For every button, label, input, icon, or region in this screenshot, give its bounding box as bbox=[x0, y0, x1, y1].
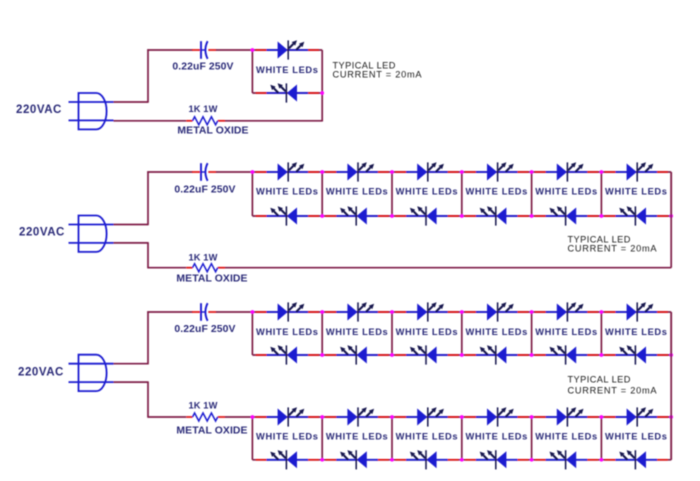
junction circuit 3 lower chain top rail dot 1 bbox=[251, 415, 255, 419]
wire circuit 3 top rail left of cap bbox=[147, 311, 192, 313]
wire circuit 3 lower chain cell boundary vertical x=392 bbox=[391, 417, 393, 460]
wire circuit 3 upper chain cell 5 top rail red stub left bbox=[535, 311, 547, 313]
wire circuit 2 return wire to right edge bbox=[225, 267, 671, 269]
svg-text:METAL OXIDE: METAL OXIDE bbox=[176, 425, 247, 436]
wire circuit 3 upper chain cell 2 bottom rail red stub left bbox=[326, 354, 338, 356]
junction circuit 2 top rail dot 6 bbox=[600, 170, 604, 174]
LED D3 (white LED, pointing right) bbox=[267, 162, 309, 181]
wire circuit 3 lower chain cell 4 top rail red stub left bbox=[465, 416, 477, 418]
wire circuit 2 cell 1 bottom rail red stub left bbox=[256, 215, 268, 217]
junction circuit 3 upper chain bottom rail dot 4 bbox=[460, 353, 464, 357]
LED D4 (white LED, pointing left) bbox=[267, 206, 309, 225]
junction circuit 2 bottom rail dot 6 bbox=[600, 214, 604, 218]
wire circuit 3 upper chain cell 6 bottom rail red stub right bbox=[656, 354, 668, 356]
LED D32 (white LED, pointing left) bbox=[406, 450, 448, 469]
svg-text:WHITE LEDs: WHITE LEDs bbox=[256, 187, 319, 197]
junction circuit 2 bottom rail dot 5 bbox=[530, 214, 534, 218]
wire circuit 3 lower chain cell 5 top rail red stub left bbox=[535, 416, 547, 418]
wire circuit 3 upper chain cell 4 top rail red stub left bbox=[465, 311, 477, 313]
wire circuit 3 lower chain cell boundary vertical x=322.2 bbox=[321, 417, 323, 460]
LED D6 (white LED, pointing left) bbox=[336, 206, 378, 225]
svg-text:WHITE LEDs: WHITE LEDs bbox=[465, 187, 528, 197]
junction circuit 3 upper chain top rail dot 4 bbox=[460, 310, 464, 314]
wire circuit 2 bottom rail bbox=[252, 215, 671, 217]
svg-text:TYPICAL LED: TYPICAL LED bbox=[568, 375, 631, 385]
LED D1 (white LED, pointing right) bbox=[267, 40, 309, 59]
svg-text:1K 1W: 1K 1W bbox=[189, 252, 218, 262]
svg-text:WHITE LEDs: WHITE LEDs bbox=[605, 187, 668, 197]
wire circuit 3 lower chain cell 2 bottom rail red stub left bbox=[326, 459, 338, 461]
wire circuit 1 top rail left of cap bbox=[147, 49, 192, 51]
resistor R1 1K 1W metal oxide bbox=[186, 117, 225, 125]
svg-text:CURRENT = 20mA: CURRENT = 20mA bbox=[568, 385, 658, 395]
wire circuit 2 right vertical bbox=[670, 172, 672, 268]
svg-text:0.22uF 250V: 0.22uF 250V bbox=[174, 185, 235, 196]
wire circuit 3 upper chain top rail bbox=[252, 311, 671, 313]
wire circuit 2 return wire left of resistor bbox=[147, 267, 186, 269]
svg-text:220VAC: 220VAC bbox=[16, 104, 62, 116]
wire circuit 3 lower chain cell 1 bottom rail red stub right bbox=[307, 459, 319, 461]
svg-text:WHITE LEDs: WHITE LEDs bbox=[256, 432, 319, 442]
wire circuit 3 upper chain cell 1 top rail red stub left bbox=[256, 311, 268, 313]
wire circuit 1 top rail red stub left bbox=[256, 49, 268, 51]
wire circuit 3 lower chain cell 2 top rail red stub right bbox=[377, 416, 389, 418]
LED D37 (white LED, pointing right) bbox=[616, 407, 658, 426]
wire circuit 3 right vertical bbox=[670, 312, 672, 460]
wire circuit 3 upper chain cell 2 top rail red stub left bbox=[326, 311, 338, 313]
wire circuit 2 cell 6 bottom rail red stub left bbox=[605, 215, 617, 217]
junction circuit 3 lower chain bottom rail dot 5 bbox=[530, 458, 534, 462]
wire circuit 2 cell 6 bottom rail red stub right bbox=[656, 215, 668, 217]
wire circuit 2 cell 6 top rail red stub right bbox=[656, 171, 668, 173]
wire circuit 1 cell top rail bbox=[252, 49, 322, 51]
svg-text:WHITE LEDs: WHITE LEDs bbox=[256, 327, 319, 337]
wire circuit 1 cell bottom rail bbox=[252, 92, 322, 94]
LED D13 (white LED, pointing right) bbox=[616, 162, 658, 181]
junction circuit 2 top rail dot 4 bbox=[460, 170, 464, 174]
wire circuit 3 bottom drop bbox=[147, 382, 149, 417]
LED D14 (white LED, pointing left) bbox=[616, 206, 658, 225]
wire circuit 3 lower chain cell 6 top rail red stub right bbox=[656, 416, 668, 418]
wire circuit 3 upper chain cell 3 top rail red stub left bbox=[395, 311, 407, 313]
wire circuit 3 upper chain cell 2 top rail red stub right bbox=[377, 311, 389, 313]
wire circuit 3 lower chain bottom rail bbox=[252, 459, 671, 461]
LED D26 (white LED, pointing left) bbox=[616, 345, 658, 364]
wire circuit 2 cell boundary vertical x=671.2 bbox=[670, 172, 672, 216]
resistor R3 1K 1W metal oxide bbox=[186, 413, 225, 421]
svg-text:WHITE LEDs: WHITE LEDs bbox=[535, 327, 598, 337]
wire circuit 2 cell 2 bottom rail red stub left bbox=[326, 215, 338, 217]
wire circuit 2 cell 4 top rail red stub left bbox=[465, 171, 477, 173]
wire circuit 3 lower chain cell 5 top rail red stub right bbox=[586, 416, 598, 418]
junction circuit 1 top-left bbox=[251, 48, 255, 52]
wire circuit 3 lower chain cell 5 bottom rail red stub right bbox=[586, 459, 598, 461]
wire circuit 3 lower chain cell boundary vertical x=461.8 bbox=[461, 417, 463, 460]
wire circuit 3 upper chain cell 6 top rail red stub left bbox=[605, 311, 617, 313]
wire circuit 3 upper chain cell boundary vertical x=461.8 bbox=[461, 312, 463, 355]
capacitor C3 0.22uF 250V bbox=[192, 303, 217, 321]
wire circuit 2 cell 3 bottom rail red stub left bbox=[395, 215, 407, 217]
junction circuit 3 upper chain top rail dot 1 bbox=[251, 310, 255, 314]
svg-text:1K 1W: 1K 1W bbox=[189, 104, 218, 114]
junction circuit 3 lower chain top rail dot 2 bbox=[320, 415, 324, 419]
svg-text:WHITE LEDs: WHITE LEDs bbox=[535, 187, 598, 197]
svg-text:WHITE LEDs: WHITE LEDs bbox=[396, 187, 459, 197]
wire circuit 3 lower chain cell 3 top rail red stub left bbox=[395, 416, 407, 418]
svg-text:220VAC: 220VAC bbox=[18, 367, 64, 379]
wire circuit 1 cell right vertical bbox=[321, 50, 323, 122]
wire circuit 3 top rail cap to first junction bbox=[216, 311, 252, 313]
svg-text:220VAC: 220VAC bbox=[19, 226, 65, 238]
junction circuit 3 lower chain top rail dot 5 bbox=[530, 415, 534, 419]
svg-text:WHITE LEDs: WHITE LEDs bbox=[256, 65, 319, 75]
wire plug P3 top pin to riser bbox=[114, 363, 149, 365]
wire circuit 3 lower chain cell 1 top rail red stub left bbox=[256, 416, 268, 418]
wire circuit 2 cell 4 top rail red stub right bbox=[516, 171, 528, 173]
LED D20 (white LED, pointing left) bbox=[406, 345, 448, 364]
wire circuit 2 top rail cap to first junction bbox=[216, 171, 252, 173]
wire circuit 2 cell 3 bottom rail red stub right bbox=[446, 215, 458, 217]
wire circuit 2 cell 2 bottom rail red stub right bbox=[377, 215, 389, 217]
LED D35 (white LED, pointing right) bbox=[546, 407, 588, 426]
wire circuit 2 cell boundary vertical x=601.4 bbox=[600, 172, 602, 216]
LED D11 (white LED, pointing right) bbox=[546, 162, 588, 181]
wire circuit 3 lower chain cell 6 top rail red stub left bbox=[605, 416, 617, 418]
junction circuit 3 lower chain bottom rail dot 2 bbox=[320, 458, 324, 462]
wire circuit 1 bottom rail red stub right bbox=[307, 92, 319, 94]
svg-text:WHITE LEDs: WHITE LEDs bbox=[465, 432, 528, 442]
LED D2 (white LED, pointing left) bbox=[267, 83, 309, 102]
wire circuit 3 upper chain cell 3 top rail red stub right bbox=[446, 311, 458, 313]
resistor R2 1K 1W metal oxide bbox=[186, 264, 225, 272]
junction circuit 2 bottom rail dot 2 bbox=[320, 214, 324, 218]
wire circuit 3 lower chain cell 3 bottom rail red stub left bbox=[395, 459, 407, 461]
LED D10 (white LED, pointing left) bbox=[476, 206, 518, 225]
wire circuit 3 upper chain cell 1 bottom rail red stub left bbox=[256, 354, 268, 356]
junction circuit 3 upper chain bottom rail dot 6 bbox=[600, 353, 604, 357]
wire circuit 3 upper chain cell boundary vertical x=531.6 bbox=[531, 312, 533, 355]
svg-text:0.22uF 250V: 0.22uF 250V bbox=[174, 324, 235, 335]
junction circuit 3 lower chain top rail dot 3 bbox=[390, 415, 394, 419]
wire plug P1 bottom pin to resistor bbox=[114, 120, 187, 122]
AC plug source P2 (circuit 2) bbox=[69, 216, 114, 252]
wire circuit 1 return wire bbox=[225, 120, 322, 122]
wire circuit 3 lower chain cell 5 bottom rail red stub left bbox=[535, 459, 547, 461]
wire circuit 3 lower chain top rail bbox=[252, 416, 671, 418]
wire circuit 3 upper chain cell 4 bottom rail red stub left bbox=[465, 354, 477, 356]
LED D23 (white LED, pointing right) bbox=[546, 302, 588, 321]
wire circuit 2 cell boundary vertical x=392 bbox=[391, 172, 393, 216]
junction circuit 3 upper chain bottom rail dot 5 bbox=[530, 353, 534, 357]
wire circuit 3 lower chain cell boundary vertical x=252.4 bbox=[251, 417, 253, 460]
wire plug P3 bottom pin wire bbox=[114, 381, 149, 383]
LED D36 (white LED, pointing left) bbox=[546, 450, 588, 469]
wire circuit 2 cell 4 bottom rail red stub right bbox=[516, 215, 528, 217]
junction circuit 3 lower chain bottom rail dot 3 bbox=[390, 458, 394, 462]
svg-text:WHITE LEDs: WHITE LEDs bbox=[535, 432, 598, 442]
LED D19 (white LED, pointing right) bbox=[406, 302, 448, 321]
wire circuit 3 upper chain cell 6 top rail red stub right bbox=[656, 311, 668, 313]
wire circuit 3 upper chain cell boundary vertical x=601.4 bbox=[600, 312, 602, 355]
svg-text:0.22uF 250V: 0.22uF 250V bbox=[172, 62, 233, 73]
wire plug P1 top pin to riser bbox=[114, 101, 149, 103]
wire circuit 3 lower chain cell 4 top rail red stub right bbox=[516, 416, 528, 418]
wire circuit 2 cell 1 top rail red stub right bbox=[307, 171, 319, 173]
wire circuit 2 cell 1 top rail red stub left bbox=[256, 171, 268, 173]
wire circuit 3 lower chain cell 1 top rail red stub right bbox=[307, 416, 319, 418]
wire circuit 3 upper chain cell boundary vertical x=671.2 bbox=[670, 312, 672, 355]
wire circuit 3 upper chain cell 6 bottom rail red stub left bbox=[605, 354, 617, 356]
LED D15 (white LED, pointing right) bbox=[267, 302, 309, 321]
wire riser circuit 1 bbox=[147, 49, 149, 102]
wire circuit 3 lower chain cell 4 bottom rail red stub right bbox=[516, 459, 528, 461]
junction circuit 2 bottom rail dot 7 bbox=[669, 214, 673, 218]
wire circuit 2 top rail bbox=[252, 171, 671, 173]
wire riser circuit 2 bbox=[147, 171, 149, 225]
wire circuit 2 cell 3 top rail red stub left bbox=[395, 171, 407, 173]
svg-text:METAL OXIDE: METAL OXIDE bbox=[176, 273, 247, 284]
junction circuit 3 upper chain top rail dot 3 bbox=[390, 310, 394, 314]
wire circuit 2 bottom drop bbox=[147, 243, 149, 268]
wire circuit 2 cell 3 top rail red stub right bbox=[446, 171, 458, 173]
wire circuit 3 upper chain cell 1 top rail red stub right bbox=[307, 311, 319, 313]
wire circuit 3 lower chain cell 6 bottom rail red stub right bbox=[656, 459, 668, 461]
wire circuit 3 lower chain cell 4 bottom rail red stub left bbox=[465, 459, 477, 461]
LED D31 (white LED, pointing right) bbox=[406, 407, 448, 426]
LED D30 (white LED, pointing left) bbox=[336, 450, 378, 469]
LED D38 (white LED, pointing left) bbox=[616, 450, 658, 469]
wire circuit 3 lower chain cell 2 bottom rail red stub right bbox=[377, 459, 389, 461]
LED D18 (white LED, pointing left) bbox=[336, 345, 378, 364]
junction circuit 1 bottom-right bbox=[320, 91, 324, 95]
wire circuit 3 upper chain cell 2 bottom rail red stub right bbox=[377, 354, 389, 356]
wire circuit 2 cell 1 bottom rail red stub right bbox=[307, 215, 319, 217]
svg-text:WHITE LEDs: WHITE LEDs bbox=[605, 327, 668, 337]
wire circuit 2 cell 4 bottom rail red stub left bbox=[465, 215, 477, 217]
LED D12 (white LED, pointing left) bbox=[546, 206, 588, 225]
LED D5 (white LED, pointing right) bbox=[336, 162, 378, 181]
junction circuit 3 upper chain bottom rail dot 2 bbox=[320, 353, 324, 357]
wire circuit 2 cell boundary vertical x=531.6 bbox=[531, 172, 533, 216]
LED D17 (white LED, pointing right) bbox=[336, 302, 378, 321]
junction circuit 3 upper chain top rail dot 2 bbox=[320, 310, 324, 314]
wire circuit 3 lower chain cell 2 top rail red stub left bbox=[326, 416, 338, 418]
wire circuit 3 upper chain cell boundary vertical x=322.2 bbox=[321, 312, 323, 355]
wire circuit 2 cell 5 bottom rail red stub left bbox=[535, 215, 547, 217]
wire circuit 2 top rail left of cap bbox=[147, 171, 192, 173]
svg-text:CURRENT = 20mA: CURRENT = 20mA bbox=[333, 70, 423, 80]
wire circuit 3 upper chain cell 5 bottom rail red stub left bbox=[535, 354, 547, 356]
wire circuit 1 top rail red stub right bbox=[307, 49, 319, 51]
junction circuit 2 top rail dot 5 bbox=[530, 170, 534, 174]
wire circuit 2 cell 2 top rail red stub left bbox=[326, 171, 338, 173]
svg-text:WHITE LEDs: WHITE LEDs bbox=[326, 432, 389, 442]
wire circuit 3 lower rail left of resistor bbox=[147, 416, 186, 418]
AC plug source P1 (circuit 1) bbox=[69, 93, 114, 129]
wire circuit 3 upper chain cell 5 bottom rail red stub right bbox=[586, 354, 598, 356]
wire plug P2 top pin to riser bbox=[114, 224, 149, 226]
svg-text:WHITE LEDs: WHITE LEDs bbox=[605, 432, 668, 442]
wire circuit 3 lower chain cell 3 top rail red stub right bbox=[446, 416, 458, 418]
wire circuit 3 upper chain cell 5 top rail red stub right bbox=[586, 311, 598, 313]
LED D21 (white LED, pointing right) bbox=[476, 302, 518, 321]
LED D25 (white LED, pointing right) bbox=[616, 302, 658, 321]
junction circuit 3 lower chain bottom rail dot 4 bbox=[460, 458, 464, 462]
LED D24 (white LED, pointing left) bbox=[546, 345, 588, 364]
wire circuit 3 upper chain cell 3 bottom rail red stub right bbox=[446, 354, 458, 356]
wire circuit 2 cell 6 top rail red stub left bbox=[605, 171, 617, 173]
junction circuit 3 upper chain bottom rail dot 7 bbox=[669, 353, 673, 357]
wire circuit 3 lower chain cell 6 bottom rail red stub left bbox=[605, 459, 617, 461]
wire circuit 3 lower chain cell 3 bottom rail red stub right bbox=[446, 459, 458, 461]
LED D22 (white LED, pointing left) bbox=[476, 345, 518, 364]
junction circuit 2 bottom rail dot 4 bbox=[460, 214, 464, 218]
junction circuit 2 top rail dot 2 bbox=[320, 170, 324, 174]
junction circuit 2 top rail dot 1 bbox=[251, 170, 255, 174]
wire circuit 3 lower chain cell boundary vertical x=531.6 bbox=[531, 417, 533, 460]
svg-text:WHITE LEDs: WHITE LEDs bbox=[326, 327, 389, 337]
wire circuit 3 upper chain cell boundary vertical x=392 bbox=[391, 312, 393, 355]
svg-text:WHITE LEDs: WHITE LEDs bbox=[396, 327, 459, 337]
wire circuit 3 upper chain cell 4 top rail red stub right bbox=[516, 311, 528, 313]
LED D9 (white LED, pointing right) bbox=[476, 162, 518, 181]
wire plug P2 bottom pin wire bbox=[114, 242, 149, 244]
junction circuit 3 lower chain bottom rail dot 6 bbox=[600, 458, 604, 462]
svg-text:WHITE LEDs: WHITE LEDs bbox=[396, 432, 459, 442]
LED D8 (white LED, pointing left) bbox=[406, 206, 448, 225]
wire circuit 2 cell 5 bottom rail red stub right bbox=[586, 215, 598, 217]
wire circuit 1 bottom rail red stub left bbox=[256, 92, 268, 94]
wire circuit 3 lower chain cell boundary vertical x=671.2 bbox=[670, 417, 672, 460]
wire circuit 3 upper chain cell 1 bottom rail red stub right bbox=[307, 354, 319, 356]
wire circuit 2 cell 2 top rail red stub right bbox=[377, 171, 389, 173]
svg-text:METAL OXIDE: METAL OXIDE bbox=[177, 126, 248, 137]
wire circuit 3 lower rail resistor to first junction bbox=[225, 416, 252, 418]
LED D16 (white LED, pointing left) bbox=[267, 345, 309, 364]
wire circuit 3 upper chain bottom rail bbox=[252, 354, 671, 356]
junction circuit 2 top rail dot 3 bbox=[390, 170, 394, 174]
LED D7 (white LED, pointing right) bbox=[406, 162, 448, 181]
wire circuit 3 lower chain cell 1 bottom rail red stub left bbox=[256, 459, 268, 461]
LED D34 (white LED, pointing left) bbox=[476, 450, 518, 469]
wire circuit 3 upper chain cell 3 bottom rail red stub left bbox=[395, 354, 407, 356]
capacitor C2 0.22uF 250V bbox=[192, 163, 217, 181]
wire circuit 2 cell 5 top rail red stub right bbox=[586, 171, 598, 173]
wire circuit 2 cell boundary vertical x=252.4 bbox=[251, 172, 253, 216]
wire circuit 2 cell 5 top rail red stub left bbox=[535, 171, 547, 173]
wire circuit 3 upper chain cell 4 bottom rail red stub right bbox=[516, 354, 528, 356]
wire riser circuit 3 bbox=[147, 311, 149, 364]
wire circuit 3 lower chain cell boundary vertical x=601.4 bbox=[600, 417, 602, 460]
junction circuit 3 lower chain top rail dot 4 bbox=[460, 415, 464, 419]
junction circuit 3 upper chain top rail dot 6 bbox=[600, 310, 604, 314]
wire circuit 1 top rail cap to junction bbox=[216, 49, 252, 51]
junction circuit 2 bottom rail dot 3 bbox=[390, 214, 394, 218]
svg-text:CURRENT = 20mA: CURRENT = 20mA bbox=[568, 244, 658, 254]
LED D27 (white LED, pointing right) bbox=[267, 407, 309, 426]
junction circuit 3 lower chain top rail dot 6 bbox=[600, 415, 604, 419]
svg-text:1K 1W: 1K 1W bbox=[189, 401, 218, 411]
svg-text:WHITE LEDs: WHITE LEDs bbox=[465, 327, 528, 337]
LED D29 (white LED, pointing right) bbox=[336, 407, 378, 426]
LED D33 (white LED, pointing right) bbox=[476, 407, 518, 426]
AC plug source P3 (circuit 3) bbox=[69, 355, 114, 391]
wire circuit 1 cell left vertical bbox=[251, 50, 253, 93]
wire circuit 2 cell boundary vertical x=322.2 bbox=[321, 172, 323, 216]
svg-text:WHITE LEDs: WHITE LEDs bbox=[326, 187, 389, 197]
junction circuit 3 upper chain top rail dot 5 bbox=[530, 310, 534, 314]
junction circuit 3 upper chain bottom rail dot 3 bbox=[390, 353, 394, 357]
wire circuit 2 cell boundary vertical x=461.8 bbox=[461, 172, 463, 216]
wire circuit 3 upper chain cell boundary vertical x=252.4 bbox=[251, 312, 253, 355]
junction circuit 3 lower chain top rail dot 7 bbox=[669, 415, 673, 419]
capacitor C1 0.22uF 250V bbox=[192, 41, 217, 59]
LED D28 (white LED, pointing left) bbox=[267, 450, 309, 469]
